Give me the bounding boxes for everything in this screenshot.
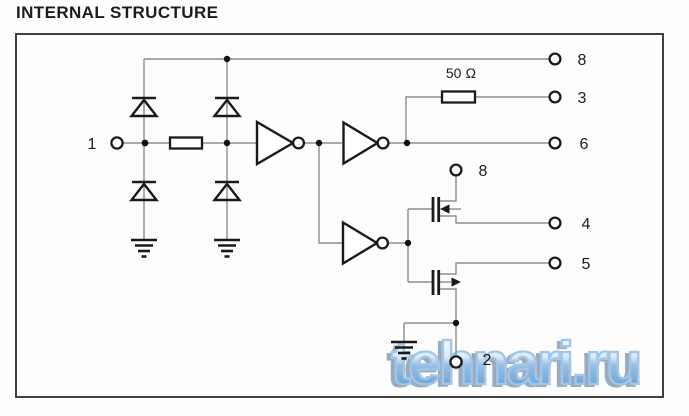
svg-text:4: 4 <box>582 216 591 233</box>
svg-text:5: 5 <box>582 256 591 273</box>
svg-text:2: 2 <box>483 352 492 369</box>
svg-text:8: 8 <box>578 52 587 69</box>
svg-text:8: 8 <box>479 163 488 180</box>
svg-text:3: 3 <box>578 90 587 107</box>
svg-text:6: 6 <box>580 136 589 153</box>
svg-text:50 Ω: 50 Ω <box>446 65 476 81</box>
svg-text:1: 1 <box>88 136 97 153</box>
